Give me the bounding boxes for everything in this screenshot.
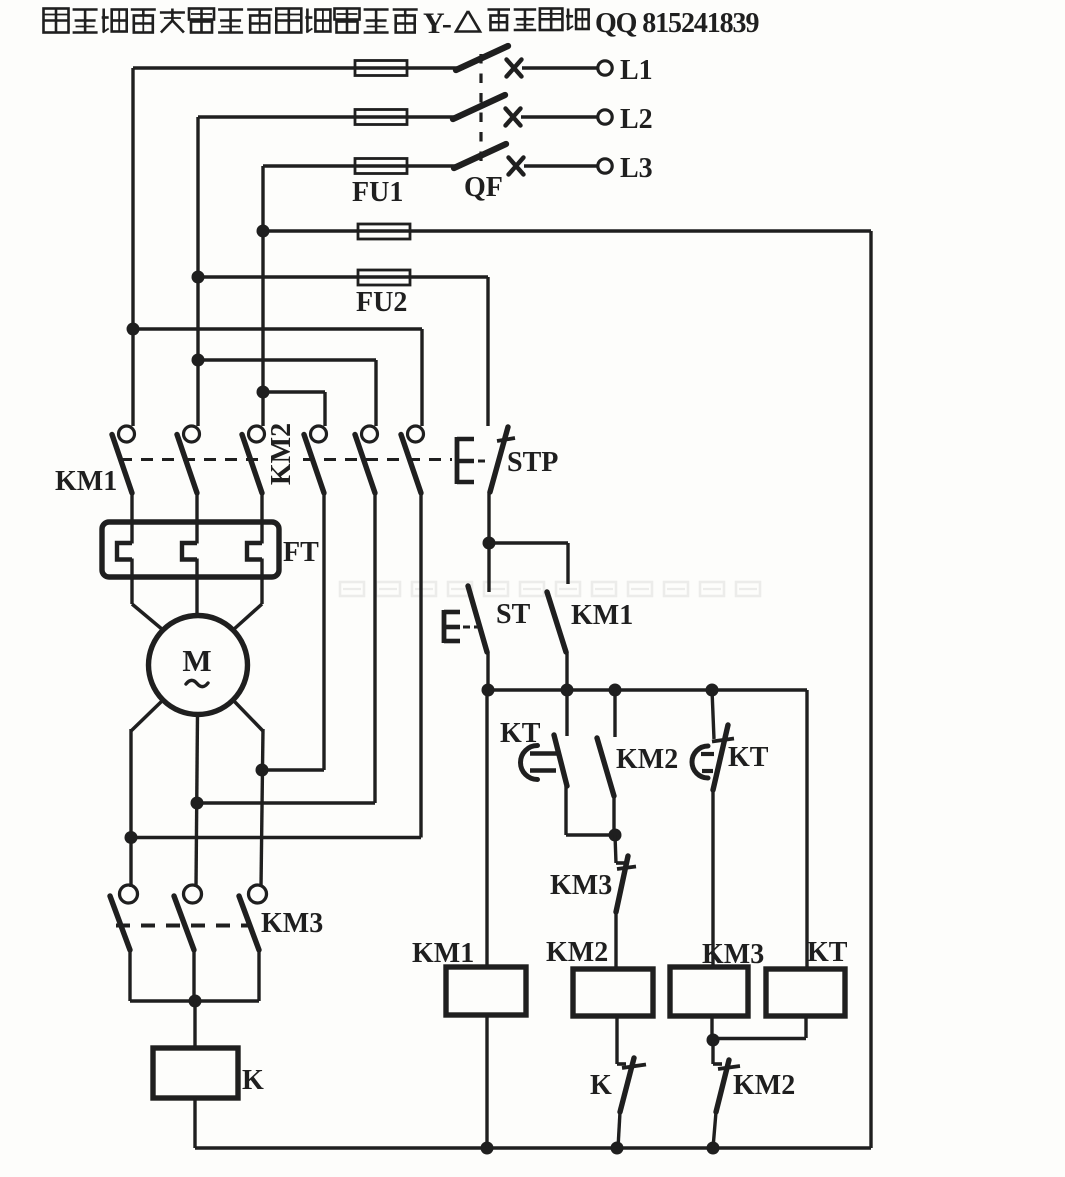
svg-text:QQ 815241839: QQ 815241839 [595, 8, 758, 39]
svg-text:STP: STP [507, 447, 558, 478]
svg-text:KM2: KM2 [546, 937, 608, 968]
svg-text:K: K [242, 1065, 264, 1096]
svg-text:L3: L3 [620, 153, 653, 184]
svg-text:KM2: KM2 [616, 744, 678, 775]
svg-text:KM3: KM3 [261, 908, 323, 939]
svg-text:K: K [590, 1070, 612, 1101]
svg-text:L2: L2 [620, 104, 653, 135]
svg-text:M: M [182, 643, 211, 678]
svg-text:KT: KT [807, 937, 848, 968]
svg-text:FT: FT [283, 537, 319, 568]
svg-text:KM3: KM3 [550, 870, 612, 901]
svg-text:FU2: FU2 [356, 287, 407, 318]
svg-text:KM2: KM2 [733, 1070, 795, 1101]
svg-text:Y-: Y- [423, 7, 452, 40]
svg-text:FU1: FU1 [352, 177, 403, 208]
svg-text:QF: QF [464, 172, 503, 203]
svg-text:ST: ST [496, 599, 531, 630]
svg-text:KM3: KM3 [702, 939, 764, 970]
svg-text:KM1: KM1 [412, 938, 474, 969]
svg-text:KM1: KM1 [55, 466, 117, 497]
svg-text:KM1: KM1 [571, 600, 633, 631]
svg-text:KT: KT [728, 742, 769, 773]
svg-text:KM2: KM2 [266, 423, 297, 485]
svg-text:L1: L1 [620, 55, 653, 86]
svg-text:KT: KT [500, 718, 541, 749]
